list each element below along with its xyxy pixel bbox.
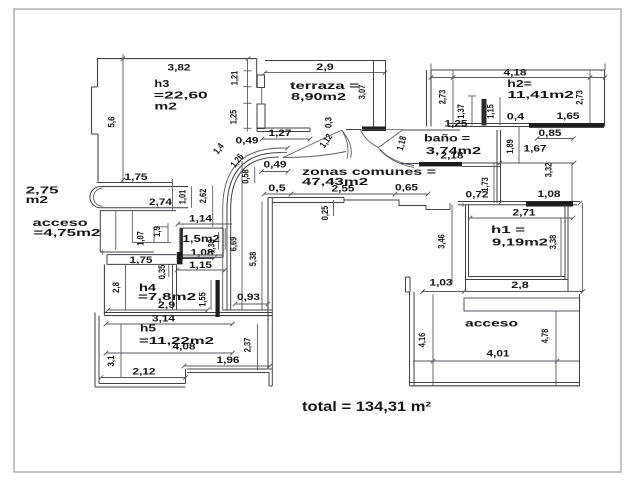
svg-text:0,49: 0,49 — [236, 136, 259, 147]
svg-text:1,03: 1,03 — [430, 278, 453, 289]
svg-text:2,73: 2,73 — [438, 90, 449, 105]
svg-text:11,41m2: 11,41m2 — [507, 89, 574, 101]
svg-text:0,65: 0,65 — [395, 183, 419, 194]
svg-text:2,73: 2,73 — [575, 90, 586, 105]
svg-text:m2: m2 — [26, 194, 49, 206]
svg-text:2,12: 2,12 — [133, 367, 156, 378]
svg-text:2,37: 2,37 — [243, 338, 254, 353]
svg-text:acceso: acceso — [465, 318, 518, 330]
svg-text:3,1: 3,1 — [106, 355, 117, 367]
svg-text:1,14: 1,14 — [189, 214, 213, 225]
svg-text:1,65: 1,65 — [557, 111, 581, 122]
svg-text:1,9: 1,9 — [152, 226, 163, 237]
svg-text:1,08: 1,08 — [191, 247, 214, 258]
svg-text:h3: h3 — [154, 78, 169, 90]
svg-text:1,37: 1,37 — [456, 104, 467, 119]
svg-text:47,43m2: 47,43m2 — [302, 176, 368, 188]
svg-text:1,25: 1,25 — [445, 119, 469, 130]
svg-text:4,78: 4,78 — [540, 329, 551, 344]
svg-text:0,85: 0,85 — [539, 128, 563, 139]
svg-text:h1 =: h1 = — [491, 224, 525, 236]
svg-text:=4,75m2: =4,75m2 — [33, 227, 100, 239]
svg-text:1,08: 1,08 — [538, 189, 561, 200]
svg-text:0,35: 0,35 — [157, 264, 168, 279]
svg-text:2,74: 2,74 — [149, 197, 173, 208]
svg-text:1,07: 1,07 — [136, 231, 147, 246]
svg-text:0,49: 0,49 — [264, 160, 287, 171]
svg-text:m2: m2 — [154, 101, 177, 113]
svg-text:1,27: 1,27 — [269, 128, 292, 139]
svg-text:2,8: 2,8 — [111, 282, 122, 293]
svg-text:4,01: 4,01 — [487, 349, 511, 360]
svg-text:2,8: 2,8 — [511, 280, 529, 291]
svg-text:4,08: 4,08 — [173, 342, 196, 353]
svg-text:1,25: 1,25 — [229, 109, 240, 124]
svg-text:9,19m2: 9,19m2 — [492, 236, 548, 248]
svg-text:=22,60: =22,60 — [154, 89, 208, 101]
svg-text:baño =: baño = — [424, 133, 470, 145]
svg-text:1,21: 1,21 — [230, 70, 241, 85]
svg-text:1,75: 1,75 — [130, 255, 154, 266]
svg-text:2,18: 2,18 — [441, 151, 464, 162]
svg-text:0,72: 0,72 — [466, 190, 489, 201]
svg-text:1,75: 1,75 — [125, 172, 149, 183]
svg-text:3,46: 3,46 — [437, 234, 448, 249]
svg-text:1,15: 1,15 — [486, 104, 497, 119]
svg-text:1,15: 1,15 — [189, 260, 213, 271]
svg-text:2,9: 2,9 — [316, 62, 334, 73]
svg-text:3,38: 3,38 — [548, 235, 559, 250]
svg-text:3,32: 3,32 — [544, 163, 555, 178]
svg-text:3,14: 3,14 — [152, 314, 176, 325]
svg-text:0,25: 0,25 — [320, 205, 331, 220]
svg-text:5,38: 5,38 — [248, 252, 259, 267]
svg-text:0,4: 0,4 — [507, 112, 525, 123]
svg-text:total = 134,31 m²: total = 134,31 m² — [302, 398, 431, 414]
svg-text:3,82: 3,82 — [168, 63, 191, 74]
svg-text:h2=: h2= — [507, 78, 532, 90]
svg-text:2,62: 2,62 — [198, 189, 209, 204]
svg-text:4,18: 4,18 — [504, 68, 527, 79]
svg-text:1,67: 1,67 — [524, 144, 547, 155]
svg-text:8,90m2: 8,90m2 — [291, 91, 346, 103]
svg-text:5,6: 5,6 — [107, 117, 118, 128]
svg-text:6,69: 6,69 — [229, 237, 240, 252]
svg-text:0,93: 0,93 — [237, 292, 260, 303]
svg-text:1,89: 1,89 — [505, 139, 516, 154]
svg-text:1,55: 1,55 — [198, 292, 209, 307]
svg-text:1,01: 1,01 — [178, 189, 189, 204]
svg-text:0,3: 0,3 — [324, 117, 335, 128]
svg-text:0,5: 0,5 — [268, 183, 286, 194]
svg-text:4,16: 4,16 — [417, 333, 428, 348]
svg-text:1,96: 1,96 — [217, 355, 240, 366]
svg-text:2,71: 2,71 — [513, 208, 537, 219]
